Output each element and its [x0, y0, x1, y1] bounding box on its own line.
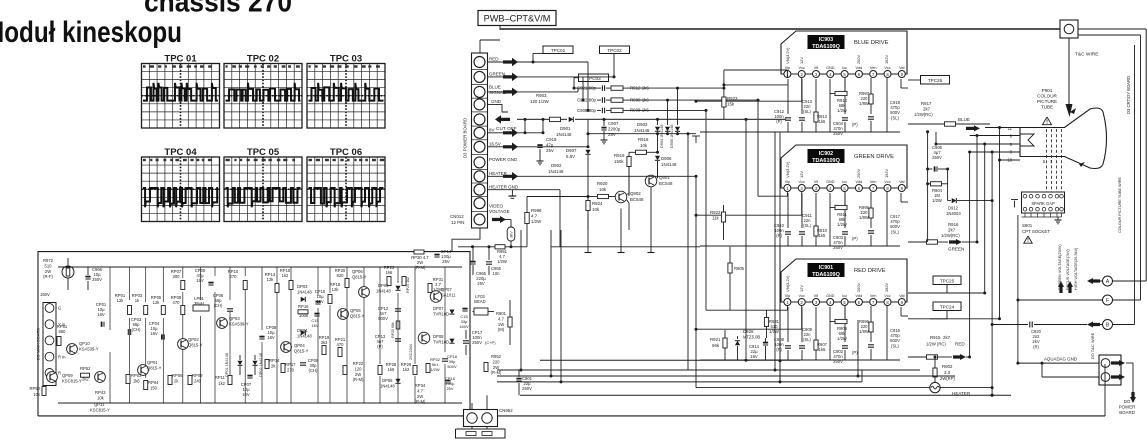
wire riser heater x992.1: [991, 152, 993, 395]
svg-text:25V: 25V: [608, 132, 616, 137]
svg-text:PICTURE: PICTURE: [1037, 99, 1057, 104]
svg-text:QP02: QP02: [188, 337, 199, 342]
svg-text:POWER: POWER: [1119, 405, 1136, 410]
svg-text:(C+P): (C+P): [485, 340, 496, 345]
svg-text:GND: GND: [826, 66, 835, 70]
svg-text:Vip: Vip: [785, 180, 790, 184]
wire TPC01 tap: [532, 54, 534, 63]
resistor R905: [729, 247, 731, 263]
svg-text:PWB–CPT&V/M: PWB–CPT&V/M: [484, 14, 551, 24]
capacitor C907 2200u 25V: [603, 119, 605, 126]
spark gap pin top 1: [1023, 194, 1027, 198]
test point waveform TPC 06: [307, 147, 385, 222]
svg-text:Ven: Ven: [870, 180, 877, 184]
svg-text:Vcc: Vcc: [799, 180, 805, 184]
resistor R997 220 1/8W: [870, 78, 872, 94]
svg-text:Vdd: Vdd: [856, 66, 863, 70]
svg-text:500V: 500V: [378, 316, 388, 321]
svg-text:DP08: DP08: [433, 334, 444, 339]
svg-text:HEATER GND: HEATER GND: [489, 184, 519, 189]
svg-text:RED DRIVE: RED DRIVE: [854, 268, 886, 274]
terminal T x696: [692, 135, 700, 137]
svg-text:200V: 200V: [856, 55, 861, 64]
test point waveform TPC 05: [224, 147, 302, 222]
svg-text:(P): (P): [776, 347, 782, 352]
svg-text:(CH): (CH): [132, 327, 141, 332]
spark gap pin top 5: [1049, 194, 1053, 198]
svg-text:2k2: 2k2: [82, 377, 89, 382]
svg-text:300: 300: [173, 274, 181, 279]
resistor R908: [611, 108, 623, 112]
arrow RED out: [953, 354, 966, 360]
svg-text:1/2W: 1/2W: [430, 367, 440, 372]
svg-text:VOLTAGE: VOLTAGE: [489, 209, 510, 214]
svg-text:RP14: RP14: [269, 358, 280, 363]
diode D926 MTZ5.0B: [737, 336, 739, 339]
capacitor C902 470n 250V: [844, 307, 846, 342]
capacitor C910 100n: [787, 193, 789, 228]
svg-text:4.7: 4.7: [417, 388, 423, 393]
wire IC903 pin9 down: [900, 79, 902, 88]
svg-text:RP24 1k2: RP24 1k2: [406, 277, 410, 293]
svg-text:12k: 12k: [117, 298, 125, 303]
svg-text:DP06: DP06: [382, 378, 393, 383]
svg-text:C922 80p: C922 80p: [577, 98, 597, 103]
wire C906 to D912: [947, 169, 949, 201]
svg-text:1k2: 1k2: [403, 367, 410, 372]
wire top rail to T&C connector: [500, 28, 1060, 30]
svg-text:(CH): (CH): [214, 303, 223, 308]
svg-text:IC903: IC903: [819, 37, 833, 43]
arrow focus voltage: [1067, 281, 1073, 293]
resistor R921 56k: [724, 330, 726, 338]
svg-text:D906: D906: [661, 156, 672, 161]
svg-text:200V: 200V: [856, 283, 861, 292]
svg-text:(P): (P): [776, 233, 782, 238]
svg-text:BC548: BC548: [659, 181, 673, 186]
resistor R911 68k 1/2W: [844, 192, 846, 208]
svg-text:RP50: RP50: [30, 386, 41, 391]
svg-text:1/2W(RC): 1/2W(RC): [914, 112, 933, 117]
svg-text:220: 220: [493, 359, 501, 364]
svg-text:12 PIN: 12 PIN: [451, 220, 464, 225]
svg-text:R901: R901: [496, 311, 507, 316]
wire 16.5V feed: [488, 146, 541, 148]
test point waveform TPC 02: [224, 53, 302, 128]
wire green out to riser: [962, 241, 977, 243]
svg-text:192V: 192V: [884, 169, 889, 178]
resistor R912: [611, 86, 623, 90]
svg-text:2SC2344: 2SC2344: [409, 344, 413, 360]
svg-text:GND: GND: [491, 99, 502, 104]
electron gun: [1020, 134, 1034, 146]
capacitor CP07a 10u 16V: [247, 375, 252, 377]
capacitor CP15b 33u 160V: [462, 308, 467, 310]
wire CN952 drop: [471, 403, 473, 410]
svg-text:!: !: [1027, 238, 1029, 244]
svg-text:BLUE: BLUE: [489, 85, 501, 90]
capacitor C919 47u 25V: [537, 144, 542, 146]
resistor RP04 150: [144, 381, 148, 390]
wire red out to riser: [966, 356, 970, 358]
svg-text:1N4148: 1N4148: [297, 334, 312, 339]
pin main board 2: [45, 320, 54, 329]
svg-text:11k: 11k: [712, 216, 720, 221]
svg-text:QP06: QP06: [352, 269, 363, 274]
svg-text:Vaf: Vaf: [899, 294, 905, 298]
svg-text:Vfd(3.2V): Vfd(3.2V): [785, 161, 790, 178]
arrow GREEN out: [949, 239, 962, 245]
wire 8V feed: [488, 132, 544, 134]
svg-text:16V: 16V: [97, 312, 105, 317]
wire cutoff rail: [517, 118, 549, 120]
resistor R931 510 1/2W: [766, 310, 768, 317]
ground bus IC902: [829, 193, 831, 246]
svg-text:GND: GND: [826, 180, 835, 184]
svg-text:TUBE: TUBE: [1041, 105, 1053, 110]
transistor QP09 KSC815-Y: [47, 372, 58, 383]
svg-text:1k5: 1k5: [819, 119, 826, 124]
ground ticks on rail: [587, 247, 589, 253]
node B: [1103, 320, 1113, 330]
resistor R907 1k5: [815, 307, 817, 340]
svg-text:(R): (R): [1033, 344, 1039, 349]
wire G1 column: [927, 132, 929, 242]
svg-text:120 1/2W: 120 1/2W: [530, 99, 550, 104]
svg-text:Icc: Icc: [842, 180, 847, 184]
resistor RP25 68k: [396, 321, 400, 329]
svg-text:TPC25: TPC25: [940, 279, 955, 284]
transistor QP01 Q815-Y: [138, 365, 149, 376]
arrow 8V in: [503, 129, 518, 138]
diode D912 1N4003: [952, 198, 957, 203]
svg-text:DP01 1N4148: DP01 1N4148: [225, 353, 229, 377]
resistor RP14 2k: [265, 360, 269, 369]
svg-text:Q815-Y: Q815-Y: [352, 275, 367, 280]
wire tube pin 10: [1000, 159, 1021, 161]
svg-text:COLOUR: COLOUR: [1037, 94, 1057, 99]
svg-text:470: 470: [173, 300, 181, 305]
socket plate CN952: [456, 429, 506, 438]
svg-text:1N4148: 1N4148: [376, 289, 391, 294]
svg-text:1/8W: 1/8W: [859, 101, 869, 106]
svg-text:56k: 56k: [712, 343, 720, 348]
svg-text:Vcc: Vcc: [799, 66, 805, 70]
svg-text:1k5: 1k5: [819, 347, 826, 352]
svg-text:TPC 01: TPC 01: [164, 53, 197, 64]
svg-text:T&C WIRE: T&C WIRE: [1075, 52, 1098, 58]
svg-text:GREEN: GREEN: [948, 247, 964, 252]
resistor RP51 680: [57, 337, 61, 346]
wire x746 vertical to red bus: [745, 119, 747, 360]
svg-text:Vcc: Vcc: [884, 294, 890, 298]
wire TPC25 tap: [908, 285, 947, 294]
svg-text:1/8W: 1/8W: [859, 329, 869, 334]
capacitor C904 470n 250V: [844, 79, 846, 114]
wire aquadag bus: [1018, 362, 1099, 364]
wire tube pin 11: [985, 127, 1020, 129]
svg-text:(R-M): (R-M): [415, 399, 426, 404]
wire heater gnd + ground stub: [488, 189, 561, 191]
capacitor CP17 100n 250V: [463, 340, 469, 342]
arrow power pin 2: [1111, 374, 1125, 380]
svg-text:11: 11: [1008, 126, 1013, 131]
wire power out: [1126, 362, 1133, 364]
wire cap row blue: [574, 87, 597, 89]
spark gap pin top 4: [1042, 194, 1046, 198]
svg-text:TPC26: TPC26: [928, 78, 943, 83]
svg-text:RP02: RP02: [131, 373, 142, 378]
arrow BLUE to tube: [966, 125, 980, 131]
svg-text:TPC01: TPC01: [551, 48, 566, 53]
svg-text:160V: 160V: [459, 324, 469, 329]
diode DP02 1N4148: [252, 361, 257, 366]
svg-text:250V: 250V: [92, 277, 102, 282]
deflection arrow bottom: [1079, 162, 1085, 167]
diode D906 1N4148: [657, 134, 659, 153]
svg-text:RP16: RP16: [298, 304, 309, 309]
spark gap pin bottom 1: [1023, 207, 1027, 211]
svg-text:12V: 12V: [799, 171, 804, 178]
svg-text:1W: 1W: [498, 322, 504, 327]
pin CN012-6: [474, 127, 485, 138]
svg-text:Vfi: Vfi: [814, 66, 819, 70]
svg-text:Vdd: Vdd: [856, 180, 863, 184]
svg-text:25V: 25V: [446, 386, 453, 391]
transistor Q901 BC548: [645, 175, 657, 187]
arrow VIDEO VOLTAGE: [492, 216, 506, 223]
arrow CUT OFF out: [495, 115, 510, 124]
svg-text:10k: 10k: [97, 396, 105, 401]
resistor R914 68k 1/2W: [844, 78, 846, 94]
svg-text:BOARD: BOARD: [1119, 410, 1135, 415]
svg-text:1/2W: 1/2W: [769, 329, 779, 334]
svg-text:Q901: Q901: [659, 175, 670, 180]
svg-text:(SL): (SL): [803, 109, 812, 114]
wire heater gnd vertical: [559, 190, 561, 247]
wire node B: [1100, 324, 1135, 326]
spark gap pin top 6: [1055, 194, 1059, 198]
tube electrode dashes: [1046, 129, 1048, 192]
test point TPC24 box: [933, 302, 961, 311]
arrow HEATER in: [503, 172, 518, 181]
svg-text:Vcc: Vcc: [884, 66, 890, 70]
wire T&C connector to right bus: [1078, 28, 1146, 30]
svg-text:1/2W: 1/2W: [837, 336, 847, 341]
svg-text:KSA539-Y: KSA539-Y: [229, 322, 249, 327]
svg-text:R903: R903: [536, 93, 547, 98]
transistor QP08 2SC2344: [418, 332, 430, 344]
test point TPC01 box: [543, 46, 573, 54]
resistor RP09 240: [188, 376, 192, 385]
svg-text:10n: 10n: [493, 271, 501, 276]
transistor Q902 BC548: [615, 191, 627, 203]
spark gap pin bottom 6: [1055, 207, 1059, 211]
test point TPC26 box: [921, 76, 950, 85]
svg-text:Vip: Vip: [785, 66, 790, 70]
arrow 16.5V in: [503, 143, 518, 152]
svg-text:TPC24: TPC24: [940, 305, 955, 310]
svg-text:TVR10D: TVR10D: [433, 312, 449, 317]
svg-text:TPC 02: TPC 02: [247, 53, 279, 64]
svg-text:2k7: 2k7: [923, 107, 931, 112]
wire blue row to IC column: [628, 87, 724, 89]
wire riser x984.7: [984, 144, 986, 293]
svg-text:(SL): (SL): [891, 115, 900, 120]
svg-text:10k: 10k: [592, 207, 600, 212]
wire TPC03 tap: [574, 78, 579, 88]
svg-text:16V: 16V: [267, 335, 275, 340]
svg-text:Vaf: Vaf: [899, 66, 905, 70]
svg-text:RP34: RP34: [415, 383, 426, 388]
svg-text:250V: 250V: [522, 386, 532, 391]
transistor QP06 Q815-Y: [359, 287, 370, 298]
svg-text:25V: 25V: [442, 259, 450, 264]
wire TPC02 tap: [613, 54, 615, 77]
svg-text:2W: 2W: [45, 269, 51, 274]
resistor R998 4.7 1/2W: [526, 197, 528, 213]
svg-text:Vdd: Vdd: [856, 294, 863, 298]
wire video voltage: [505, 219, 511, 221]
ground bus IC901: [829, 307, 831, 360]
wire to power connector pin2: [1041, 363, 1043, 377]
svg-text:470: 470: [337, 342, 345, 347]
spark gap pin bottom 2: [1029, 207, 1033, 211]
svg-text:2k7: 2k7: [943, 335, 951, 340]
svg-text:270: 270: [230, 274, 238, 279]
capacitor C955 10n: [486, 261, 492, 263]
wire collector rail y246.8 right: [551, 246, 700, 248]
svg-text:TPC02: TPC02: [607, 48, 622, 53]
svg-text:250V: 250V: [932, 155, 942, 160]
svg-text:R905: R905: [734, 266, 745, 271]
resistor R922 11k: [723, 205, 725, 212]
svg-text:680: 680: [59, 329, 67, 334]
transistor QP03 KSA539-Y: [217, 318, 228, 329]
capacitor C916 470p 500V: [868, 344, 874, 346]
svg-text:(P): (P): [852, 350, 858, 355]
svg-text:D3 CRT/DY BOARD: D3 CRT/DY BOARD: [1126, 76, 1131, 114]
svg-text:R902: R902: [942, 364, 953, 369]
capacitor C920 2n2 2kV: [1029, 322, 1031, 328]
svg-text:RP52: RP52: [80, 366, 91, 371]
wire T&C down to tube: [1068, 38, 1070, 104]
resistor R923 15k: [723, 85, 725, 97]
resistor R918 10k: [636, 150, 647, 154]
wire bus y416 bottom frame: [38, 415, 1105, 417]
resistor RP06 2k: [168, 376, 172, 385]
svg-text:(M): (M): [498, 327, 505, 332]
capacitor C909 22n: [801, 307, 803, 342]
wire riser green x977: [976, 136, 978, 243]
wire tube pin 6: [936, 143, 1020, 145]
capacitor CP15 10 16V: [314, 313, 319, 315]
svg-text:2k7: 2k7: [948, 228, 956, 233]
svg-text:R924: R924: [592, 201, 603, 206]
diode D903 1N4148: [657, 119, 659, 125]
svg-text:1/2W: 1/2W: [837, 222, 847, 227]
board DO MAIN BOARD outline: [38, 252, 470, 416]
wire bus y376: [497, 375, 955, 377]
svg-text:TDA6109Q: TDA6109Q: [812, 272, 841, 278]
svg-text:Vcc: Vcc: [799, 294, 805, 298]
pin main board 5: [45, 369, 54, 378]
capacitor CP09 30p (CH): [300, 362, 306, 364]
svg-text:47µ: 47µ: [546, 143, 554, 148]
svg-text:192V: 192V: [884, 283, 889, 292]
svg-text:(P): (P): [852, 236, 858, 241]
svg-text:2W: 2W: [493, 365, 499, 370]
resistor R908 68k 1/2W: [844, 306, 846, 322]
svg-text:1k6: 1k6: [386, 270, 393, 275]
svg-text:1k2: 1k2: [282, 273, 289, 278]
diode D904 1N4148: [667, 100, 669, 125]
spark gap pin bottom 7: [1060, 207, 1064, 211]
resistor RP50 10k: [42, 387, 46, 396]
transistor QP02 Q815-Y: [178, 339, 189, 350]
svg-text:DP03: DP03: [297, 284, 308, 289]
connector CN952: [464, 410, 498, 427]
connector DO MAIN BOARD: [43, 303, 56, 386]
svg-text:R916: R916: [948, 222, 959, 227]
spark gap 3KV pill: [507, 227, 515, 241]
svg-text:Vfd(3.2V): Vfd(3.2V): [785, 275, 790, 292]
svg-text:16V: 16V: [196, 278, 204, 283]
svg-text:DO: DO: [1124, 399, 1131, 404]
resistor R913 1k5: [815, 79, 817, 112]
svg-text:(SL): (SL): [891, 229, 900, 234]
capacitor C966 10u 250V: [85, 276, 90, 278]
arrow down to power board: [1130, 392, 1136, 403]
svg-text:TDA6109Q: TDA6109Q: [812, 44, 841, 50]
transistor QP07 SA1011: [430, 291, 442, 303]
spark gap pin top 7: [1060, 194, 1064, 198]
svg-text:R: R: [58, 371, 61, 376]
svg-text:IC902: IC902: [819, 151, 833, 157]
test point TPC03 box: [579, 74, 609, 82]
wire IC ground rails drop: [779, 133, 781, 382]
wire node A: [1100, 280, 1146, 282]
svg-text:(R-F): (R-F): [43, 274, 53, 279]
wire x561 vertical: [560, 230, 562, 382]
pin CN012-8: [474, 157, 485, 168]
wire GREEN line: [488, 76, 615, 78]
resistor RP52 2k2: [81, 373, 90, 377]
svg-text:DO MAIN BOARD: DO MAIN BOARD: [36, 328, 41, 361]
wire x862 to bus: [861, 370, 863, 382]
arrow T&C wire to bulb: [1066, 104, 1073, 117]
svg-text:R923: R923: [727, 96, 738, 101]
pin CN012-11: [474, 198, 485, 209]
svg-text:10k: 10k: [33, 392, 41, 397]
svg-text:Icc: Icc: [842, 66, 847, 70]
svg-text:500V: 500V: [447, 364, 457, 369]
spark gap pin bottom 3: [1036, 207, 1040, 211]
svg-text:C907: C907: [608, 121, 619, 126]
svg-text:510: 510: [45, 263, 53, 268]
svg-text:10k: 10k: [640, 143, 648, 148]
svg-text:D3 POWER BOARD: D3 POWER BOARD: [463, 118, 468, 158]
wire 12V rail blue: [696, 100, 802, 102]
svg-text:D901: D901: [560, 126, 571, 131]
transistor QP11 KSC815-Y: [95, 372, 106, 383]
wire bus y370: [497, 369, 920, 371]
svg-text:RP06: RP06: [172, 373, 183, 378]
wire 12V rail green: [696, 214, 802, 216]
pin CN012-7: [474, 141, 485, 152]
arrow power pin 1: [1111, 360, 1125, 366]
svg-text:BLUE DRIVE: BLUE DRIVE: [854, 40, 889, 46]
